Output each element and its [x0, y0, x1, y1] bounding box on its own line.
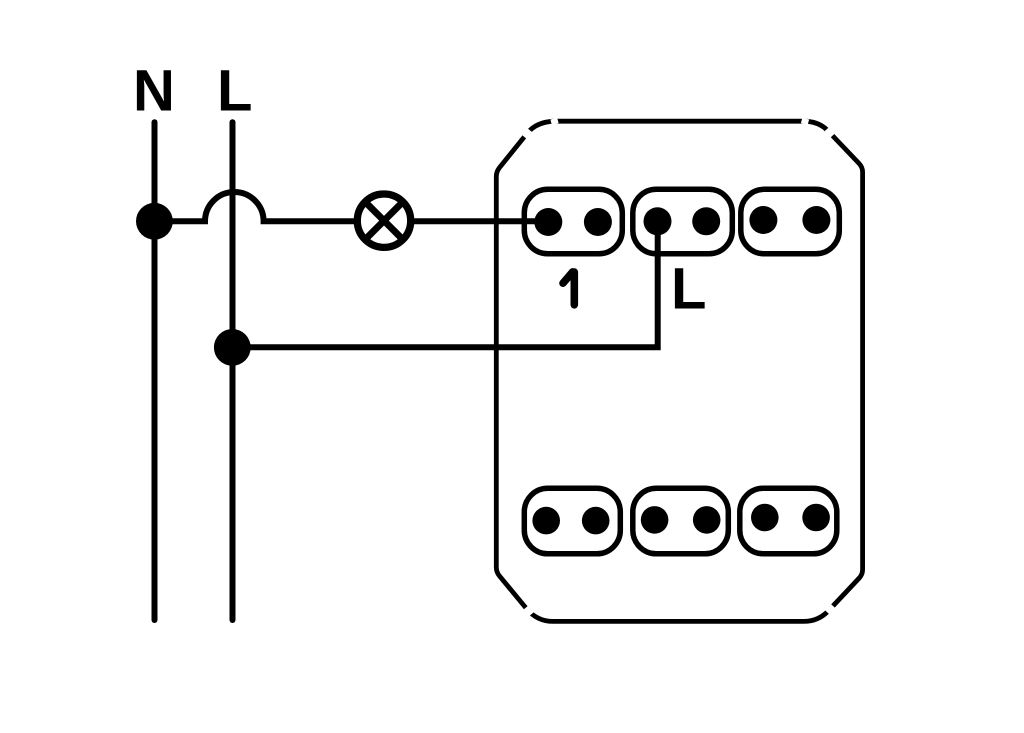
svg-text:L: L [671, 257, 706, 322]
svg-text:L: L [217, 59, 252, 124]
svg-text:N: N [133, 59, 175, 124]
